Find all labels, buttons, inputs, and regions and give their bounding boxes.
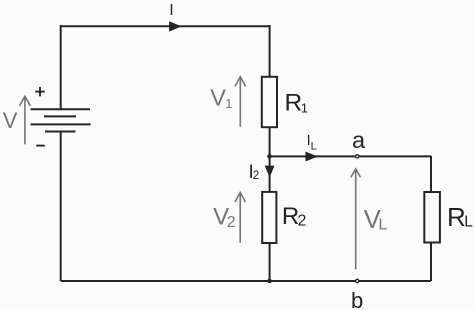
svg-text:V: V — [3, 108, 18, 133]
svg-text:1: 1 — [301, 100, 308, 115]
svg-text:L: L — [311, 140, 317, 152]
svg-text:b: b — [351, 288, 363, 310]
svg-text:2: 2 — [227, 214, 236, 231]
svg-text:R: R — [447, 202, 466, 232]
svg-text:1: 1 — [225, 96, 232, 111]
svg-text:L: L — [379, 216, 388, 233]
svg-text:R: R — [285, 90, 303, 117]
svg-text:2: 2 — [253, 168, 260, 182]
svg-text:2: 2 — [298, 213, 307, 230]
svg-text:V: V — [210, 85, 226, 111]
svg-text:I: I — [169, 2, 173, 19]
svg-text:a: a — [352, 127, 366, 153]
svg-text:L: L — [464, 214, 473, 231]
